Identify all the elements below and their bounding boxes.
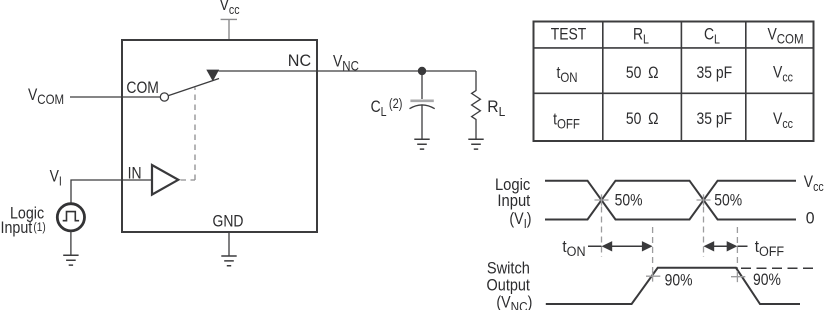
svg-text:50 Ω: 50 Ω bbox=[626, 64, 659, 83]
table cell 50 ohm row2 bbox=[626, 110, 659, 129]
dashed reference line at second 50% crossing bbox=[703, 207, 705, 258]
label VNC bbox=[333, 52, 359, 73]
table header TEST bbox=[551, 25, 587, 44]
capacitor CL top plate bbox=[410, 100, 433, 103]
table header RL bbox=[633, 25, 649, 46]
capacitor CL top lead bbox=[421, 71, 423, 99]
label VCOM bbox=[28, 86, 64, 107]
ground under GND pin bbox=[221, 256, 236, 266]
crossing marker 2 bbox=[697, 194, 711, 205]
svg-text:(VI): (VI) bbox=[509, 210, 531, 231]
table cell tOFF bbox=[553, 110, 580, 131]
rising edge 90% marker bbox=[646, 271, 660, 282]
pin label NC bbox=[288, 50, 311, 69]
label 50% second bbox=[714, 191, 742, 210]
table cell 35 pF row1 bbox=[696, 64, 732, 83]
label 50% first bbox=[615, 191, 643, 210]
label Logic Input(1) bbox=[1, 204, 46, 237]
level label 0 bbox=[806, 209, 815, 228]
svg-text:50%: 50% bbox=[714, 191, 742, 210]
dashed high level reference bbox=[741, 267, 816, 269]
wire NC net bbox=[219, 70, 477, 72]
switch arm bbox=[168, 79, 219, 96]
capacitor CL bottom lead bbox=[421, 104, 423, 139]
DUT box bbox=[122, 40, 317, 232]
pulse generator source bbox=[57, 204, 84, 231]
label Vcc supply bbox=[220, 0, 240, 17]
capacitor CL curved bottom plate bbox=[410, 105, 435, 109]
svg-text:GND: GND bbox=[213, 212, 244, 231]
test conditions table grid bbox=[534, 22, 814, 142]
wire VI to IN buffer bbox=[71, 180, 152, 203]
svg-text:NC: NC bbox=[288, 50, 311, 69]
level label Vcc bbox=[804, 173, 824, 194]
table cell Vcc row2 bbox=[773, 110, 793, 131]
table header VCOM bbox=[767, 25, 803, 46]
label 90% falling bbox=[753, 271, 781, 290]
ground under RL bbox=[468, 139, 483, 149]
label 90% rising bbox=[665, 271, 693, 290]
switch arrowhead at NC contact bbox=[206, 70, 219, 82]
wire source to ground bbox=[70, 231, 72, 256]
dashed reference line at tON end bbox=[652, 227, 654, 271]
svg-text:35 pF: 35 pF bbox=[696, 110, 732, 129]
label VI bbox=[50, 167, 62, 188]
table cell 50 ohm row1 bbox=[626, 64, 659, 83]
svg-text:50 Ω: 50 Ω bbox=[626, 110, 659, 129]
svg-text:Output: Output bbox=[487, 277, 531, 295]
pin label COM bbox=[126, 79, 159, 98]
label tOFF bbox=[755, 237, 784, 259]
resistor RL lead and zigzag bbox=[472, 71, 481, 139]
svg-text:90%: 90% bbox=[753, 271, 781, 290]
svg-text:0: 0 bbox=[806, 209, 815, 228]
falling edge 90% marker bbox=[731, 271, 745, 282]
svg-text:90%: 90% bbox=[665, 271, 693, 290]
svg-text:35 pF: 35 pF bbox=[696, 64, 732, 83]
buffer amplifier inside box bbox=[152, 165, 178, 195]
GND pin wire bbox=[228, 232, 230, 256]
Vcc supply bar pin bbox=[221, 19, 237, 40]
label RL bbox=[487, 97, 505, 119]
label tON bbox=[562, 237, 585, 259]
label Switch Output (VNC) bbox=[487, 260, 533, 315]
table cell Vcc row1 bbox=[773, 63, 793, 84]
svg-text:50%: 50% bbox=[615, 191, 643, 210]
switch pole terminal circle bbox=[160, 93, 168, 101]
ground under source bbox=[63, 255, 78, 265]
svg-text:Input: Input bbox=[497, 192, 530, 210]
dashed control line buffer to switch bbox=[181, 88, 196, 181]
label Logic Input (VI) bbox=[495, 176, 532, 231]
logic input waveform falling-start line bbox=[545, 181, 796, 220]
node junction dot bbox=[418, 67, 426, 75]
svg-text:Switch: Switch bbox=[487, 260, 530, 278]
ground under CL bbox=[414, 139, 429, 149]
table cell tON bbox=[556, 64, 577, 85]
tOFF dimension arrow bbox=[704, 241, 748, 251]
crossing marker 1 bbox=[595, 194, 609, 205]
pin label GND bbox=[213, 212, 244, 231]
logic input waveform rising-start line bbox=[545, 181, 796, 220]
label CL(2) bbox=[371, 96, 403, 120]
switch output waveform bbox=[546, 268, 800, 304]
dashed reference line at first 50% crossing bbox=[601, 207, 603, 258]
svg-text:TEST: TEST bbox=[551, 25, 587, 44]
table cell 35 pF row2 bbox=[696, 110, 732, 129]
table header CL bbox=[704, 25, 720, 46]
tON dimension arrow bbox=[588, 241, 653, 251]
wire VCOM to switch pole bbox=[70, 96, 160, 98]
svg-text:COM: COM bbox=[126, 79, 159, 98]
pin label IN bbox=[128, 164, 142, 183]
dashed reference line at tOFF end bbox=[736, 227, 738, 271]
